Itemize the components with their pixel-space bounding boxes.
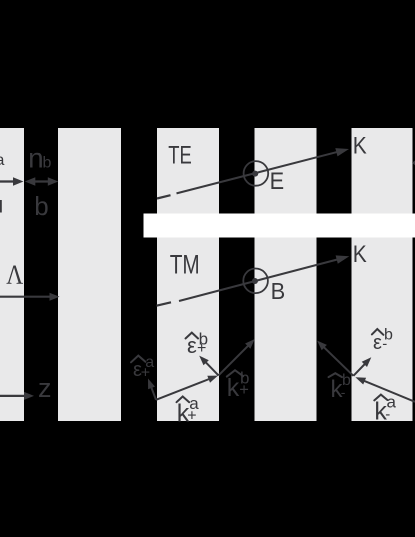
layer bar 2 (TE/TM panels)	[255, 128, 317, 421]
arrow marking period Lambda	[0, 293, 60, 301]
svg-text:b: b	[34, 191, 48, 221]
arrow marking layer a width	[0, 177, 24, 186]
z axis arrow	[0, 392, 34, 400]
Bloch wavevector K ray (TM)	[179, 255, 349, 301]
polarization arrow eps_+^b	[199, 356, 218, 376]
wavevector arrow k_+^b	[219, 339, 255, 375]
svg-text:ε: ε	[187, 333, 197, 358]
svg-text:E: E	[270, 168, 285, 195]
svg-text:K: K	[353, 241, 367, 268]
wavevector arrow k_-^a	[355, 377, 415, 402]
layer bar 3 (TE/TM panels)	[352, 128, 413, 421]
svg-text:+: +	[239, 381, 249, 399]
svg-text:-: -	[341, 384, 346, 400]
svg-text:+: +	[197, 340, 206, 357]
svg-text:-: -	[382, 335, 387, 352]
Bloch wavevector K ray (TE)	[177, 148, 350, 193]
svg-text:z: z	[38, 373, 52, 403]
B field symbol: center dot	[252, 278, 258, 284]
wavevector arrow k_-^b	[317, 341, 353, 376]
layer bar a (left, cut off)	[0, 128, 24, 421]
cut-off label a at left edge (right stem only)	[0, 200, 2, 213]
svg-text:TE: TE	[168, 141, 192, 169]
svg-text:+: +	[141, 364, 150, 381]
dashed start of TE Bloch wave ray	[157, 195, 171, 198]
svg-text:Λ: Λ	[6, 260, 23, 290]
svg-text:TM: TM	[170, 250, 200, 280]
polarization arrow eps_+^a	[148, 379, 156, 400]
E field symbol: center dot	[252, 171, 258, 177]
svg-text:k: k	[227, 374, 240, 402]
tiny cut-off arrow sliver at right edge	[412, 161, 415, 166]
svg-text:n: n	[28, 142, 44, 173]
svg-text:+: +	[187, 407, 196, 424]
layer bar b (left structure)	[58, 128, 121, 421]
svg-text:a: a	[0, 152, 5, 169]
label eps_+^a	[131, 354, 154, 381]
layer bar 1 (TE/TM panels)	[157, 128, 219, 421]
label eps_-^b	[372, 326, 393, 354]
svg-text:ε: ε	[373, 332, 382, 354]
E field symbol: circle	[244, 161, 269, 186]
label k_+^a	[177, 394, 200, 428]
svg-text:K: K	[353, 132, 367, 159]
label k_-^a	[374, 393, 396, 426]
svg-text:-: -	[385, 406, 390, 423]
dashed start of TM Bloch wave ray	[157, 302, 172, 305]
label eps_+^b	[186, 329, 209, 358]
white separator band between TE and TM panels	[144, 214, 415, 238]
B field symbol: circle	[243, 269, 268, 294]
double arrow marking layer b width	[25, 177, 59, 186]
svg-text:B: B	[271, 278, 286, 304]
polarization arrow eps_-^b	[353, 357, 371, 376]
label k_-^b	[329, 372, 352, 403]
label k_+^b	[227, 369, 250, 402]
wavevector arrow k_+^a	[156, 376, 218, 400]
svg-text:b: b	[43, 154, 52, 171]
